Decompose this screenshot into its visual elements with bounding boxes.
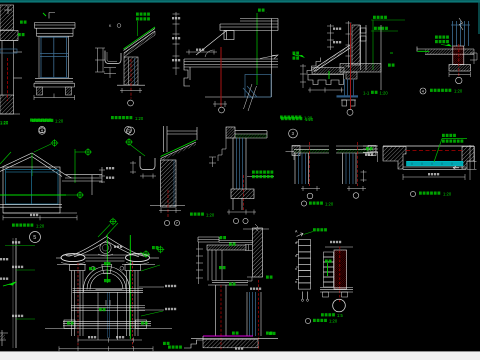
- keystone: [102, 265, 112, 274]
- bottom dim: [347, 186, 366, 191]
- dim extension ticks: [14, 51, 23, 53]
- hatched base block: [0, 95, 14, 114]
- lower hatched slab: [231, 189, 254, 199]
- svg-text:1:5: 1:5: [337, 313, 343, 318]
- green arrow marker: [8, 281, 17, 286]
- floor line: [150, 205, 185, 207]
- top tick mark: [4, 6, 12, 14]
- top hatched curb: [226, 127, 235, 138]
- left corbel bracket: [61, 254, 85, 262]
- leader 2: [16, 269, 35, 271]
- circle tag 3: [289, 129, 298, 138]
- bracket mark: [49, 13, 55, 19]
- right drip step: [370, 152, 378, 163]
- sloped coping lines: [314, 45, 351, 69]
- green mid rail line + leader: [0, 194, 66, 196]
- deck slab: [417, 47, 474, 55]
- body outer box: [3, 167, 60, 213]
- svg-text:1-1: 1-1: [363, 91, 370, 96]
- circle tag 2: [127, 127, 135, 135]
- label tag circle 4 and text: [420, 88, 426, 94]
- bottom dimension chains: [59, 338, 153, 352]
- small slab stub at far left: [363, 146, 378, 152]
- svg-text:1:20: 1:20: [380, 91, 389, 96]
- entablature lines: [56, 255, 159, 265]
- hatched roof deck strip: [124, 31, 155, 57]
- bottom dim: [308, 88, 344, 93]
- svg-text:5: 5: [33, 235, 36, 241]
- left profile steps: [218, 138, 226, 161]
- small green notes: [104, 262, 111, 265]
- angle arc: [205, 50, 213, 57]
- blue sill band: [0, 49, 17, 53]
- small whites mid: [0, 278, 8, 280]
- wall of parallel lines: [233, 138, 246, 189]
- red centerline: [220, 47, 222, 107]
- title: eave detail 1:20 (row2 center): [281, 117, 302, 120]
- bottom dimension: [120, 88, 142, 93]
- window jambs: [38, 36, 40, 78]
- gutter profile: [140, 156, 155, 170]
- label tag + text: [301, 201, 306, 206]
- label: coping detail 1:20: [280, 116, 301, 119]
- green ridge drop line: [31, 153, 33, 176]
- left edge tiny text: [0, 258, 8, 260]
- window mullions (blue): [40, 37, 68, 78]
- wall lines below: [295, 153, 309, 184]
- node circle: [307, 193, 313, 199]
- green tag circles right of pediment: [142, 250, 150, 258]
- node circles: [164, 220, 169, 225]
- break mark: [459, 18, 463, 30]
- left stepped profile + dim ticks: [196, 242, 203, 284]
- green leader + notes: [434, 139, 442, 163]
- hatched pier top: [0, 5, 14, 30]
- transom band: [73, 289, 144, 293]
- pedestal hatched block: [346, 72, 357, 79]
- gutter profile: [105, 51, 121, 64]
- title: window detail 1:20 (for detail 1 above): [32, 119, 53, 122]
- labels: [321, 313, 335, 316]
- red centerline with node circle: [350, 23, 352, 109]
- node circle: [219, 107, 225, 113]
- sill bands: [63, 321, 151, 325]
- red centerline: [458, 44, 460, 76]
- annotation green text + leader: [247, 176, 274, 178]
- leader 3: [16, 318, 35, 320]
- floor line: [117, 84, 145, 86]
- svg-text:1:20: 1:20: [135, 116, 144, 121]
- green hip line on left slope: [0, 152, 11, 164]
- svg-text:.: .: [266, 9, 267, 13]
- label: eave detail 1:20: [111, 116, 132, 119]
- hatched footing band: [203, 340, 258, 348]
- bottom left profile bits: [0, 330, 8, 346]
- label + circle 5: [12, 224, 33, 227]
- right arrow mark: [260, 55, 278, 59]
- lower wall line: [205, 96, 271, 98]
- circle tag 1: [39, 128, 46, 135]
- brick course rectangles: [296, 240, 311, 290]
- trough bottom lines: [403, 166, 466, 168]
- red centerline: [7, 58, 9, 101]
- green marks on stack: [327, 263, 329, 276]
- left brick stack: [324, 252, 334, 287]
- circle tag 1: [39, 126, 45, 132]
- bottom legs: [303, 292, 308, 300]
- green bits near footing: [163, 342, 170, 345]
- mid band: [71, 300, 145, 311]
- red centerline: [309, 142, 311, 186]
- left small dims: [130, 161, 156, 179]
- top parapet rail lines: [184, 19, 278, 98]
- green leader arrow: [445, 44, 452, 47]
- hatched wall below eave: [124, 57, 138, 85]
- red centerline: [339, 247, 341, 303]
- blue pile sleeves: [345, 79, 354, 96]
- green label under portal: [168, 346, 182, 349]
- red centerline of column: [220, 285, 222, 351]
- left dimension chain: [95, 48, 116, 78]
- base feet: [323, 292, 329, 297]
- white flow arrow: [453, 166, 459, 170]
- green short line: [328, 71, 330, 79]
- window mullions below wall (blue): [247, 292, 261, 336]
- small green notes left edge: [293, 52, 300, 55]
- top-right teal edge sliver: [478, 0, 480, 34]
- green waterproofing line: [418, 50, 430, 52]
- node circle: [128, 100, 134, 106]
- apex wreath ornament: [100, 242, 111, 253]
- top teal title bar: [0, 0, 1, 1]
- stair steps profile: [307, 58, 321, 76]
- hatched wall pier: [352, 25, 360, 65]
- label tag + gutter detail text: [410, 191, 415, 196]
- green arrow leader: [298, 55, 305, 58]
- hatched feet: [37, 87, 43, 95]
- green centerline through apex: [106, 235, 108, 283]
- post base block (red hatch): [453, 46, 464, 65]
- hatched wall: [161, 160, 177, 207]
- green leader to tag: [34, 144, 51, 152]
- pediment slopes: [66, 237, 147, 257]
- wall lines below: [343, 153, 357, 184]
- roof slopes: [0, 153, 72, 178]
- left dim chain: [346, 21, 352, 68]
- circle tag 2: [125, 127, 132, 134]
- small curb box: [224, 31, 234, 40]
- slab band: [184, 58, 278, 60]
- red centerline: [243, 175, 245, 210]
- white footing feet: [341, 100, 356, 106]
- stepped moulding profile: [308, 75, 344, 85]
- base band: [320, 288, 353, 293]
- left vertical dimension chain: [175, 12, 177, 75]
- node circles: [233, 218, 238, 223]
- bottom dim: [301, 186, 320, 191]
- blue-gray door mullion: [107, 293, 109, 339]
- roof slope lines: [124, 27, 156, 53]
- sub-band: [37, 33, 74, 35]
- footing: [449, 65, 471, 72]
- diagonal strut: [196, 31, 226, 55]
- column shaft: [215, 285, 217, 336]
- wall face boxes: [361, 25, 382, 90]
- big node circle: [333, 299, 346, 312]
- green leaders to capital: [141, 265, 160, 271]
- right dim ticks: [99, 170, 105, 182]
- arches (three concentric): [84, 267, 130, 293]
- label: window sill detail 1:20: [30, 119, 51, 122]
- inner window frame (teal): [6, 170, 59, 205]
- note text green: [435, 36, 449, 39]
- bottom dim: [227, 210, 256, 215]
- green grade mark: [388, 64, 395, 67]
- right tall hatched wall: [253, 228, 263, 277]
- red centerline right: [258, 280, 260, 351]
- bottom dimension line: [34, 94, 75, 101]
- svg-text:1:20: 1:20: [443, 192, 452, 197]
- ground hatched band: [340, 64, 381, 73]
- window frame below slab (blue): [243, 75, 271, 100]
- green grid line vertical: [256, 13, 258, 85]
- left pilaster: [70, 265, 86, 337]
- wall edge vertical line: [15, 238, 17, 348]
- blue cap band: [337, 95, 359, 97]
- floor slab band: [208, 281, 248, 286]
- vertical dim chain: [327, 24, 334, 50]
- hatched cornice band: [207, 245, 246, 250]
- hatched lintel band: [0, 31, 18, 41]
- ground line: [191, 338, 278, 340]
- svg-text:1:20: 1:20: [454, 89, 463, 94]
- right pilaster: [125, 265, 141, 337]
- bottom gray status bar: [0, 351, 480, 360]
- svg-text:1:20: 1:20: [0, 120, 9, 125]
- wall lines: [128, 58, 130, 85]
- red centerline: [357, 142, 359, 186]
- red hatched column: [334, 250, 347, 289]
- svg-text:1:20: 1:20: [325, 202, 334, 207]
- leader 1: [5, 245, 35, 247]
- top wall stub: [164, 126, 198, 152]
- left drip step: [286, 152, 295, 161]
- bottom small dims: [213, 101, 227, 107]
- right eave extension lines: [65, 174, 102, 176]
- green notes near sill: [67, 322, 74, 325]
- right hatched slab block: [462, 147, 474, 170]
- green vertical + leader tag B: [74, 149, 76, 183]
- footing: magenta dpc line: [203, 335, 253, 337]
- svg-text:1:20: 1:20: [206, 212, 215, 217]
- right bracket dim: [470, 49, 477, 64]
- crosshair tag A: [51, 139, 59, 147]
- right dim bracket: [467, 145, 477, 180]
- sill band: [35, 77, 73, 79]
- white leaders with material labels: [139, 286, 164, 288]
- red centerline: [167, 190, 169, 217]
- wall below: [232, 199, 234, 211]
- section arrow A: [297, 233, 304, 237]
- break line zigzag: [244, 84, 257, 111]
- slab band with green insulation hatch: [235, 131, 267, 138]
- gutter trough cyan liner: [407, 161, 464, 166]
- slab with green insulation: [292, 146, 329, 153]
- bottom dimension line: [3, 215, 77, 220]
- right corbel bracket: [126, 254, 150, 262]
- green top tick: [43, 13, 46, 16]
- left hatched edge block: [292, 146, 300, 156]
- sill bands: [0, 167, 102, 213]
- wall face lines: [1, 41, 3, 97]
- bottom dim: [449, 72, 471, 77]
- green leader vertical: [137, 21, 139, 36]
- small dim below stub: [361, 170, 367, 182]
- left dim chain: [300, 64, 306, 88]
- crosshair tag + leader: [125, 138, 133, 146]
- arch spring deco circles: [91, 266, 95, 270]
- node circle: [353, 193, 359, 199]
- green leader circles upper-left of pediment: [109, 218, 117, 226]
- bottom dim: [403, 174, 465, 180]
- svg-text:1:20: 1:20: [36, 223, 45, 228]
- hatched coping strip: [314, 45, 352, 72]
- top lintel slab: [35, 22, 76, 24]
- svg-text:7: 7: [176, 222, 178, 226]
- top mini cornice: [198, 237, 219, 242]
- horizontal dim: [186, 50, 217, 55]
- railing balusters (blue): [451, 21, 470, 46]
- green annotation leaders: [371, 20, 405, 70]
- top note + line: [330, 241, 341, 243]
- svg-text:1:20: 1:20: [305, 117, 314, 122]
- slope to gutter: [161, 142, 197, 159]
- svg-text:1:20: 1:20: [55, 118, 64, 123]
- gutter slab top line: [383, 145, 474, 147]
- bottom dims: [159, 208, 181, 213]
- GL level text (green): [258, 9, 265, 12]
- wall body verticals: [208, 250, 222, 281]
- green note marks on wall section: [20, 21, 27, 24]
- hatched band under coping: [312, 68, 344, 75]
- sill end blocks: [64, 320, 75, 329]
- red dashed rebar line: [406, 150, 462, 152]
- left nib profile: [184, 59, 190, 86]
- node circle: [456, 77, 462, 83]
- left hatched slab block: [383, 147, 406, 170]
- long base line: [45, 327, 172, 329]
- note text (green, two lines): [136, 13, 150, 16]
- label: eave detail 1:20: [190, 213, 204, 216]
- small ledge: [247, 277, 252, 281]
- svg-text:1:20: 1:20: [329, 319, 338, 324]
- green leader to note: [304, 232, 314, 235]
- stepped footing left: [184, 336, 203, 348]
- red centerlines of pilasters: [77, 263, 79, 347]
- door frame inside arch: [96, 290, 123, 341]
- green grid line (right pilaster): [129, 235, 131, 339]
- right hatched edge block: [368, 146, 376, 156]
- red centerline: [130, 59, 132, 99]
- course tick dots: [295, 242, 296, 282]
